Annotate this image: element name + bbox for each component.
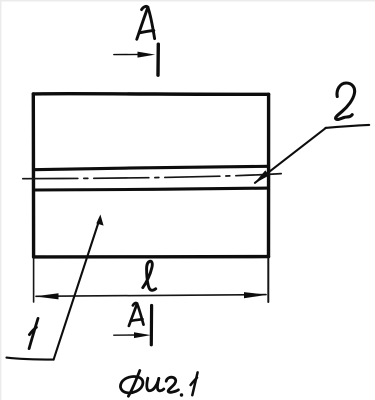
slot upper edge [34,166,269,169]
section arrow A bottom [114,332,151,338]
label 2 [336,83,355,119]
label A top [137,6,155,39]
label A bottom [129,303,144,326]
leader line to 1 [7,215,104,360]
section arrow A top [114,52,155,58]
scan edge top [0,0,375,2]
dimension line [35,292,268,299]
extension line right [267,258,269,302]
leader line to 2 [254,125,369,184]
caption фиг.1 [120,371,197,397]
extension line left [33,258,35,302]
slot lower edge [34,188,269,190]
section tick top [156,44,160,75]
section tick bottom [150,306,154,345]
scan edge left [0,0,2,400]
dimension label l (script ell) [143,261,156,290]
body outline (plate) [33,94,268,257]
label 1 [29,318,38,348]
centerline (dash-dot axis) [23,174,281,179]
